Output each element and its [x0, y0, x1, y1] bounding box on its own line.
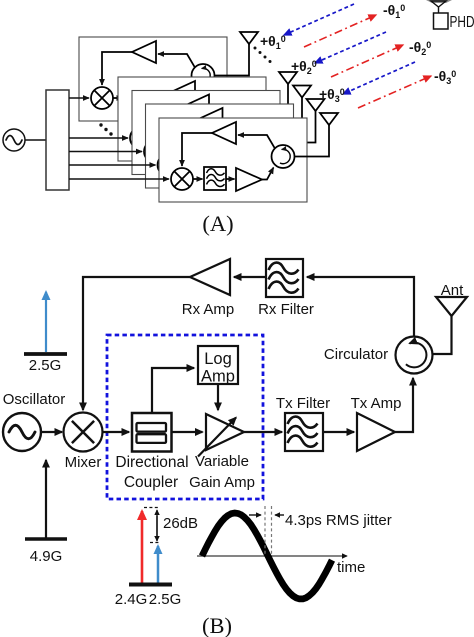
wire rx amp to mixer [83, 277, 190, 410]
module 2 [118, 72, 297, 161]
wire tx filter to tx amp [323, 431, 354, 433]
svg-text:time: time [337, 559, 365, 576]
wire splitter to module 5 mixer [69, 178, 169, 180]
phase detector box [434, 13, 449, 29]
wire rx filter to rx amp [234, 276, 266, 278]
tx filter [285, 413, 323, 451]
svg-text:26dB: 26dB [163, 515, 198, 532]
wire directional coupler to log amp [152, 368, 194, 412]
svg-text:(A): (A) [202, 211, 233, 236]
sine wave [202, 513, 332, 599]
svg-text:2.4G: 2.4G [115, 591, 148, 608]
spectrum 2.5G baseline [24, 352, 67, 356]
spectrum 2.5G arrow [45, 292, 47, 352]
svg-text:Directional: Directional [115, 454, 188, 471]
phase detector antenna [426, 0, 452, 13]
svg-text:Mixer: Mixer [65, 454, 102, 471]
svg-text:+θ20: +θ20 [291, 58, 317, 76]
spectrum 2.4G arrow [141, 511, 144, 584]
svg-text:Coupler: Coupler [124, 474, 178, 491]
dimension leader dashes [144, 508, 159, 543]
spectrum 2.5G small arrow [157, 546, 160, 584]
reflected wave arrow -theta2 [331, 45, 403, 77]
wire tx amp to circulator [395, 378, 413, 432]
module 4 [146, 99, 325, 188]
ellipsis dots antennas [254, 47, 272, 64]
wire vga to tx filter [244, 431, 282, 433]
svg-text:+θ30: +θ30 [319, 86, 345, 104]
wire splitter to module 1 mixer [69, 97, 89, 99]
svg-text:Tx Filter: Tx Filter [276, 395, 330, 412]
wire source to splitter [25, 139, 46, 141]
svg-text:Rx Amp: Rx Amp [182, 301, 235, 318]
log amp [198, 346, 238, 384]
jitter dashed lines [265, 506, 272, 556]
tx amp [357, 413, 395, 451]
incident wave arrow +theta3 [343, 62, 415, 94]
signal source [3, 129, 25, 151]
spectrum baseline [129, 583, 172, 587]
vga variability arrow [198, 418, 236, 457]
reflected wave arrow -theta3 [358, 76, 431, 108]
svg-text:Log: Log [204, 350, 232, 368]
wire circulator to rx filter [307, 277, 414, 337]
mixer [64, 413, 103, 452]
svg-text:Ant: Ant [441, 282, 464, 299]
svg-text:(B): (B) [202, 613, 232, 637]
circulator [396, 337, 433, 374]
incident wave arrow +theta1 [284, 4, 354, 35]
power splitter [46, 90, 69, 190]
ellipsis dots modules [99, 123, 112, 135]
module 5 (front) [159, 113, 338, 202]
svg-text:-θ10: -θ10 [383, 2, 405, 20]
svg-text:PHD: PHD [450, 14, 474, 31]
incident wave arrow +theta2 [315, 32, 386, 63]
module 3 [132, 86, 311, 175]
wire antenna to circulator [433, 316, 452, 354]
wire splitter to module 4 mixer [69, 164, 156, 166]
wire oscillator to mixer [41, 431, 62, 433]
reflected wave arrow -theta1 [304, 15, 376, 47]
oscillator [3, 413, 41, 451]
wire splitter to module 3 mixer [69, 151, 142, 153]
rx filter [266, 259, 303, 297]
svg-text:Tx Amp: Tx Amp [351, 395, 402, 412]
svg-text:4.9G: 4.9G [30, 548, 63, 565]
wire directional coupler to vga [172, 431, 203, 433]
spectrum 4.9G baseline [25, 537, 67, 541]
svg-text:Variable: Variable [195, 453, 249, 470]
svg-text:Rx Filter: Rx Filter [258, 301, 314, 318]
feedback loop dashed box [107, 335, 263, 499]
time axis [197, 555, 347, 557]
spectrum 4.9G arrow [45, 460, 47, 538]
svg-text:2.5G: 2.5G [149, 591, 182, 608]
wire log amp to vga [217, 384, 219, 410]
svg-text:Circulator: Circulator [324, 346, 388, 363]
svg-text:Gain Amp: Gain Amp [189, 474, 255, 491]
rx amp U-RX [190, 259, 230, 295]
svg-text:2.5G: 2.5G [29, 357, 62, 374]
svg-text:-θ30: -θ30 [434, 68, 456, 86]
directional coupler [132, 413, 172, 452]
svg-text:+θ10: +θ10 [260, 33, 286, 51]
antenna Ant [436, 297, 467, 316]
svg-text:Oscillator: Oscillator [3, 391, 66, 408]
wire splitter to module 2 mixer [69, 137, 128, 139]
variable gain amp [206, 414, 244, 450]
dimension 26dB arrows [156, 510, 158, 536]
module 1 (back) [79, 32, 258, 121]
svg-text:-θ20: -θ20 [409, 39, 431, 57]
jitter arrows [249, 514, 261, 516]
svg-text:4.3ps RMS jitter: 4.3ps RMS jitter [285, 512, 392, 529]
wire mixer to directional coupler [103, 431, 130, 433]
svg-text:Amp: Amp [201, 368, 235, 386]
